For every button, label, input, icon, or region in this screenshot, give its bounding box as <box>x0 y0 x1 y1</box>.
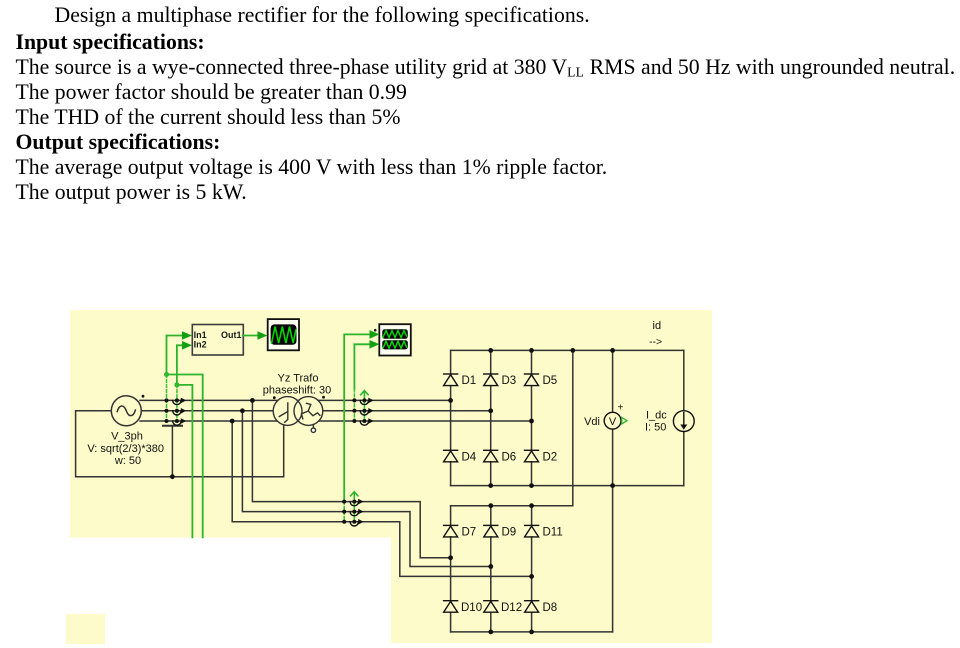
node top bus / D5 leg <box>529 348 534 353</box>
voltmeter VM5 dashed tap (lower lines) <box>343 502 345 522</box>
voltmeter VM3 dashed tap (secondary lines) <box>353 389 355 421</box>
wire top bus bridge1 <box>451 349 684 351</box>
node probe taps column VM3 (secondary lines) <box>352 398 356 423</box>
wire leg D3/D6 <box>490 350 492 485</box>
ammeter A2 phase b (source) (hump + direction arrow) <box>173 408 187 415</box>
node bridge2 bottom bus / D12 leg <box>488 630 493 635</box>
node probe taps column VM5 (lower lines) <box>342 500 346 524</box>
wire phase line 2 <box>140 410 491 412</box>
arrowhead into In2 <box>182 341 192 350</box>
diode D6 <box>484 450 498 462</box>
wire Vdi branch upper <box>612 350 614 412</box>
wire leg D7/D10 <box>450 506 452 632</box>
document text <box>16 3 960 205</box>
wire signal Out1 to scope SC1 <box>243 335 262 337</box>
node phase c / D5-D2 leg <box>529 419 534 424</box>
node phase c branch to lower bridge <box>230 419 235 424</box>
svg-text:D12: D12 <box>501 602 522 614</box>
wire signal branch down (probe 1) <box>167 375 203 538</box>
svg-text:w: 50: w: 50 <box>114 455 141 467</box>
node probe taps column VM1 (source lines) <box>165 398 169 423</box>
svg-text:V_3ph: V_3ph <box>111 431 143 443</box>
ammeter A7 phase a (lower feed) (hump + direction arrow) <box>350 499 364 506</box>
label id / arrow <box>649 320 662 348</box>
arrowhead into scope SC2 in1 <box>370 330 380 339</box>
node probe taps column VM2 (source lines) <box>175 398 179 423</box>
svg-text:D8: D8 <box>543 602 558 614</box>
BRIDGE 2 buses <box>451 506 613 632</box>
node top bus / link to bridge2 <box>570 348 575 353</box>
probe up-arrow (secondary group) <box>361 391 368 401</box>
scope SC2 (dual) <box>374 324 411 355</box>
wire right rail lower <box>683 431 685 485</box>
wire leg D11/D8 <box>531 506 533 632</box>
voltmeter VM1 dashed tap (source lines) <box>166 375 168 422</box>
svg-text:phaseshift: 30: phaseshift: 30 <box>263 385 332 397</box>
wire top bus bridge2 <box>451 505 573 507</box>
schematic background <box>66 310 712 644</box>
wire phase line 3 <box>140 420 532 422</box>
wire signal V_bc probe to In2 <box>177 345 186 385</box>
svg-text:Vdi: Vdi <box>584 416 600 428</box>
node probe taps column VM4 (secondary lines) <box>362 398 366 423</box>
svg-text:+: + <box>618 403 624 414</box>
diode D3 <box>484 374 498 386</box>
ammeter A4 phase a (secondary) (hump + direction arrow) <box>360 398 374 405</box>
wire right rail upper <box>683 350 685 411</box>
node signal junction A <box>164 372 169 377</box>
arrowhead into scope SC1 <box>258 331 268 340</box>
wire signal lower-group probe to scope SC2 in1 <box>344 334 374 501</box>
wire Vdi branch lower <box>612 429 614 632</box>
node phase a branch to lower bridge <box>250 398 255 403</box>
node neutral / bottom rail <box>170 474 175 479</box>
svg-text:Out1: Out1 <box>221 330 242 340</box>
node bottom bus / D2 leg <box>529 483 534 488</box>
node phase a / D1-D4 leg <box>448 398 453 403</box>
wire phase line 1 (primary+secondary) <box>140 399 451 401</box>
node lower phase b / D9-D12 leg <box>488 564 493 569</box>
svg-text:D9: D9 <box>502 527 517 539</box>
wire bottom bus bridge2 <box>451 631 613 633</box>
diode D8 <box>525 601 539 613</box>
wire signal V_ab probe to In1 <box>167 336 187 375</box>
wire drop phase3 to lower bridge <box>232 421 531 576</box>
ammeter A8 phase b (lower feed) (hump + direction arrow) <box>350 509 364 516</box>
wire leg D5/D2 <box>531 350 533 485</box>
svg-text:I_dc: I_dc <box>646 410 667 422</box>
wire source neutral drop <box>171 426 173 477</box>
diode D9 <box>484 525 498 537</box>
voltmeter VM6 dashed tap (lower lines) <box>353 502 355 522</box>
node polarity dot secondary <box>322 396 325 399</box>
svg-text:D2: D2 <box>543 452 558 464</box>
svg-text:D4: D4 <box>462 452 477 464</box>
diodes (outline) <box>444 374 539 612</box>
wire leg D1/D4 <box>450 350 452 485</box>
ammeter A1 phase a (source) (hump + direction arrow) <box>173 398 187 405</box>
voltmeter VM4 dashed tap (secondary lines) <box>363 400 365 421</box>
node polarity dot primary <box>273 396 276 399</box>
diode D11 <box>525 525 539 537</box>
svg-text:D10: D10 <box>461 602 482 614</box>
node lower phase c / D11-D8 leg <box>529 574 534 579</box>
voltmeter Vdi <box>584 403 627 430</box>
diode D12 <box>484 601 498 613</box>
diode D2 <box>525 450 539 462</box>
node polarity dot source <box>142 395 145 398</box>
node signal junction B <box>174 382 179 387</box>
svg-text:V: V <box>609 416 617 428</box>
node top bus / Vdi branch <box>610 348 615 353</box>
scope SC1 <box>268 319 299 350</box>
node top bus / D3 leg <box>488 348 493 353</box>
wire leg D9/D12 <box>490 506 492 632</box>
wire drop phase1 to lower bridge <box>252 400 450 557</box>
voltage source V_3ph <box>111 396 141 426</box>
BRIDGE 1 buses <box>451 350 684 632</box>
label Yz Trafo <box>263 373 332 397</box>
wire signal branch down (probe 2) <box>177 385 193 537</box>
svg-text:D3: D3 <box>502 375 517 387</box>
node bridge2 bottom bus / D8 leg <box>529 630 534 635</box>
wire drop phase2 to lower bridge <box>242 411 490 567</box>
diode D10 <box>444 601 458 613</box>
ammeter A9 phase c (lower feed) (hump + direction arrow) <box>350 519 364 526</box>
node probe taps column VM6 (lower lines) <box>352 500 356 524</box>
svg-text:In2: In2 <box>194 339 207 349</box>
svg-text:V: sqrt(2/3)*380: V: sqrt(2/3)*380 <box>87 443 164 455</box>
node lower phase a / D7-D10 leg <box>448 555 453 560</box>
ammeter A3 phase c (source) (hump + direction arrow) <box>173 418 187 425</box>
current source I_dc <box>645 410 694 434</box>
node phase b branch to lower bridge <box>240 408 245 413</box>
wire source return loop <box>76 411 284 477</box>
svg-text:D1: D1 <box>462 375 477 387</box>
arrowhead into scope SC2 in2 <box>370 340 380 349</box>
svg-text:I: 50: I: 50 <box>645 422 666 434</box>
svg-text:Yz Trafo: Yz Trafo <box>278 373 319 385</box>
svg-text:id: id <box>653 320 662 332</box>
probe up-arrow (lower group) <box>351 492 358 502</box>
ammeter A5 phase b (secondary) (hump + direction arrow) <box>360 408 374 415</box>
ammeter A6 phase c (secondary) (hump + direction arrow) <box>360 418 374 425</box>
arrowhead into In1 <box>182 331 192 340</box>
node phase b / D3-D6 leg <box>488 408 493 413</box>
wire bottom bus bridge1 <box>451 485 684 487</box>
node bridge2 top bus / D11 leg <box>529 503 534 508</box>
diode D7 <box>444 525 458 537</box>
node bridge2 top bus / D9 leg <box>488 503 493 508</box>
diode D5 <box>525 374 539 386</box>
svg-text:D5: D5 <box>543 375 558 387</box>
svg-text:-->: --> <box>649 336 662 348</box>
wire signal upper-group probe to scope SC2 in2 <box>354 344 373 389</box>
wire series link bridges <box>572 350 574 505</box>
svg-text:D6: D6 <box>502 452 517 464</box>
node neutral bar of V_3ph <box>163 425 182 427</box>
voltmeter VM2 dashed tap (source lines) <box>176 385 178 421</box>
node bottom bus / D6 leg <box>488 483 493 488</box>
node bottom bus / Vdi branch <box>610 483 615 488</box>
transformer T1 Yz <box>273 397 323 433</box>
label V_3ph <box>87 431 164 468</box>
svg-text:D7: D7 <box>462 527 477 539</box>
svg-text:D11: D11 <box>543 527 563 539</box>
diode D4 <box>444 450 458 462</box>
signal block In1/In2 <box>192 325 243 356</box>
diode D1 <box>444 374 458 386</box>
